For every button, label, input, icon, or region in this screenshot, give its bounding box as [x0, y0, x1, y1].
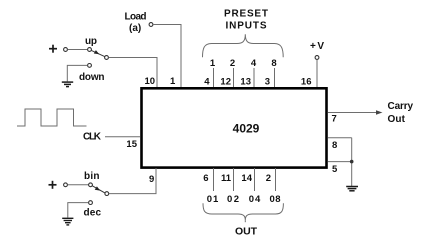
- svg-text:3: 3: [265, 77, 270, 88]
- svg-text:11: 11: [221, 173, 232, 184]
- svg-text:6: 6: [203, 173, 208, 184]
- svg-text:12: 12: [220, 77, 231, 88]
- svg-text:dec: dec: [84, 208, 102, 219]
- svg-text:down: down: [79, 72, 105, 83]
- svg-text:02: 02: [227, 194, 239, 205]
- svg-text:OUT: OUT: [235, 226, 258, 237]
- svg-text:CLK: CLK: [83, 132, 102, 143]
- svg-text:5: 5: [332, 164, 338, 175]
- svg-text:8: 8: [271, 58, 276, 69]
- svg-text:Load: Load: [125, 12, 147, 23]
- svg-text:8: 8: [332, 140, 337, 151]
- svg-text:bin: bin: [84, 171, 100, 182]
- svg-text:4: 4: [251, 58, 257, 69]
- svg-text:PRESET: PRESET: [224, 9, 268, 20]
- svg-text:1: 1: [210, 58, 216, 69]
- svg-text:Carry: Carry: [388, 101, 414, 112]
- svg-text:15: 15: [126, 139, 137, 150]
- svg-text:1: 1: [170, 76, 176, 87]
- svg-text:up: up: [85, 36, 97, 47]
- svg-text:2: 2: [266, 173, 271, 184]
- svg-text:(a): (a): [129, 23, 141, 34]
- svg-text:9: 9: [149, 174, 154, 185]
- svg-text:14: 14: [241, 173, 252, 184]
- svg-text:INPUTS: INPUTS: [226, 21, 267, 32]
- svg-text:4029: 4029: [233, 122, 260, 136]
- svg-text:13: 13: [240, 77, 251, 88]
- svg-text:16: 16: [301, 77, 312, 88]
- svg-text:01: 01: [207, 194, 219, 205]
- svg-text:2: 2: [230, 58, 235, 69]
- svg-text:Out: Out: [388, 114, 406, 125]
- svg-text:+V: +V: [310, 41, 324, 52]
- svg-text:10: 10: [145, 76, 156, 87]
- svg-text:4: 4: [204, 77, 210, 88]
- svg-text:08: 08: [270, 194, 281, 205]
- svg-text:7: 7: [332, 114, 337, 125]
- svg-text:04: 04: [249, 194, 261, 205]
